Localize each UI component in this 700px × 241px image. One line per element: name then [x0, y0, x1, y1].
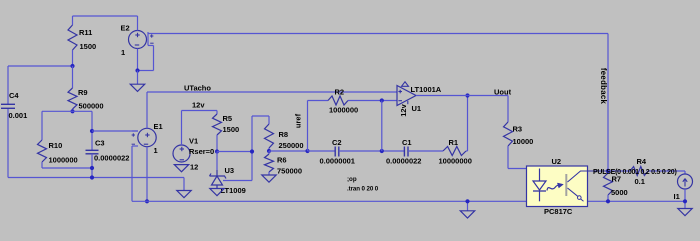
label E1 control plus sign	[132, 133, 135, 136]
node rail ground junction	[465, 199, 469, 203]
wire R11 node left	[8, 65, 73, 67]
ground E2	[130, 84, 144, 91]
opto light arrow	[547, 183, 563, 191]
wire bottom rail	[132, 200, 685, 202]
wire left vertical to C4	[7, 66, 9, 104]
svg-text:E1: E1	[154, 122, 163, 131]
svg-text:1500: 1500	[223, 125, 240, 134]
label R6 value 750000	[277, 167, 302, 176]
svg-text:PC817C: PC817C	[544, 207, 573, 216]
wire rail ground stub	[467, 201, 469, 211]
wire E2 ground stub	[137, 71, 139, 85]
node uref divider junction	[267, 149, 271, 153]
label C3 value 0.0000022	[94, 154, 129, 163]
wire ground stub left rail	[183, 178, 185, 191]
wire C3 column lower	[91, 154, 93, 178]
wire R1 to output	[467, 96, 469, 152]
wire C4 bottom to left rail	[7, 109, 9, 178]
opto LED diode	[533, 169, 546, 192]
current source I1	[678, 171, 693, 209]
resistor R10	[38, 140, 47, 168]
node C2/C1 junction	[380, 149, 384, 153]
svg-text:500000: 500000	[79, 102, 104, 111]
svg-text:1500: 1500	[80, 42, 97, 51]
wire C1 to R1	[408, 150, 443, 152]
svg-text:R3: R3	[513, 125, 523, 134]
wire uref to C2	[308, 150, 336, 152]
label V1 Rser=0	[189, 147, 214, 156]
label R4	[637, 157, 647, 166]
label net UTacho	[184, 84, 211, 93]
svg-text:C2: C2	[332, 138, 342, 147]
wire 2.5V node	[217, 151, 252, 153]
label R8	[279, 130, 289, 139]
node I1 rail junction	[683, 199, 687, 203]
svg-text:uref: uref	[294, 113, 303, 128]
svg-text:V1: V1	[189, 137, 198, 146]
svg-text:UTacho: UTacho	[184, 84, 211, 93]
label C2	[332, 138, 342, 147]
wire U3 adj pin	[223, 180, 252, 182]
label net Uout	[494, 88, 512, 97]
wire C2 to C1	[339, 150, 404, 152]
svg-text:1000000: 1000000	[49, 156, 78, 165]
label R2 value 1000000	[329, 106, 358, 115]
voltage source V1	[173, 111, 190, 163]
label U1 LT1001A	[411, 85, 442, 94]
label I1 PULSE	[593, 169, 677, 176]
wire R9 node horizontal	[42, 110, 92, 112]
vcvs E2	[129, 16, 154, 71]
wire top rail R11 to E2	[73, 15, 138, 17]
node R10/C3 junction	[90, 166, 94, 170]
label R2	[335, 88, 345, 97]
label E1 value 1	[154, 146, 158, 155]
label C1 value 0.0000022	[386, 157, 421, 166]
svg-text:1000000: 1000000	[329, 106, 358, 115]
wire opamp output	[416, 95, 508, 97]
resistor R2	[308, 96, 398, 105]
label V1	[189, 137, 198, 146]
vcvs E1	[132, 92, 156, 201]
capacitor C4	[1, 104, 15, 108]
svg-text:0.1: 0.1	[635, 177, 645, 186]
svg-text:R10: R10	[49, 141, 63, 150]
svg-text:.tran 0 20 0: .tran 0 20 0	[347, 186, 379, 193]
svg-text:250000: 250000	[279, 141, 304, 150]
svg-text:R1: R1	[449, 138, 459, 147]
label E2 value 1	[121, 48, 125, 57]
svg-text:R5: R5	[223, 114, 233, 123]
svg-text:0.0000022: 0.0000022	[386, 157, 421, 166]
wire 12v rail	[182, 110, 218, 112]
ground bottom rail	[460, 211, 474, 218]
directive ;op	[347, 176, 357, 183]
label C4	[9, 91, 19, 100]
label R10	[49, 141, 63, 150]
svg-text:E2: E2	[121, 24, 130, 33]
resistor R3	[504, 122, 513, 169]
svg-text:12: 12	[190, 163, 198, 172]
wire R3 to opto	[508, 168, 540, 170]
resistor R11	[68, 16, 77, 66]
label E2 control plus sign	[150, 34, 153, 37]
wire opto LED cathode	[539, 191, 541, 201]
label R9	[78, 88, 88, 97]
label R10 value 1000000	[49, 156, 78, 165]
svg-text:Uout: Uout	[494, 88, 512, 97]
label R8 value 250000	[279, 141, 304, 150]
svg-text:U2: U2	[552, 157, 562, 166]
label I1	[674, 192, 680, 201]
node R9 bottom junction	[70, 109, 74, 113]
node E1 bottom rail junction	[145, 199, 149, 203]
label R1	[449, 138, 459, 147]
node feedback/R4/R7 junction	[606, 169, 610, 173]
optocoupler U2 PC817C box	[527, 166, 588, 207]
svg-text:R9: R9	[78, 88, 88, 97]
label E2	[121, 24, 130, 33]
wire C3 column upper	[91, 111, 93, 150]
zener U3 LT1009	[210, 170, 227, 189]
svg-text:C4: C4	[9, 91, 19, 100]
svg-text:10000: 10000	[513, 137, 534, 146]
ground left rail	[177, 191, 191, 198]
wire 2.5V vertical	[251, 116, 253, 181]
svg-text:1: 1	[154, 146, 158, 155]
label V1 value 12	[190, 163, 198, 172]
label R3	[513, 125, 523, 134]
wire left ground rail	[8, 177, 184, 179]
svg-text:R4: R4	[637, 157, 647, 166]
node output/R1 junction	[465, 93, 469, 97]
wire 2.5V to R8 top	[252, 115, 269, 117]
label R3 value 10000	[513, 137, 534, 146]
svg-text:12v: 12v	[192, 101, 205, 110]
label net 12v	[192, 101, 205, 110]
label net feedback	[599, 68, 608, 105]
label R6	[277, 156, 287, 165]
op-amp U1 LT1001A	[397, 82, 416, 106]
resistor R7	[604, 173, 613, 201]
svg-text:R6: R6	[277, 156, 287, 165]
wire E2 control plus	[148, 33, 608, 35]
resistor R8	[265, 116, 274, 151]
capacitor C1	[404, 147, 408, 157]
wire R10 bottom to C3 column	[42, 167, 92, 169]
label C4 value 0.001	[9, 111, 28, 120]
resistor R9	[68, 66, 77, 111]
node C3/ground-rail junction	[90, 175, 94, 179]
label R1 value 10000000	[439, 157, 472, 166]
svg-text:C3: C3	[95, 139, 105, 148]
label R11 value 1500	[80, 42, 97, 51]
label C2 value 0.0000001	[320, 157, 355, 166]
svg-text:12v: 12v	[399, 103, 408, 116]
ground I1	[678, 209, 692, 216]
label E1	[154, 122, 163, 131]
label net uref	[294, 113, 303, 128]
label U2	[552, 157, 562, 166]
label C1	[402, 138, 412, 147]
directive .tran	[347, 186, 379, 193]
svg-text:R8: R8	[279, 130, 289, 139]
wire feedback vertical C2	[381, 101, 383, 152]
opto phototransistor emitter	[568, 188, 584, 201]
svg-text:C1: C1	[402, 138, 412, 147]
label R9 value 500000	[79, 102, 104, 111]
wire uref horizontal	[269, 150, 308, 152]
label R7 value 5000	[611, 188, 628, 197]
svg-text:R11: R11	[79, 28, 92, 37]
ground V1	[174, 165, 188, 172]
wire feedback vertical	[607, 34, 609, 173]
svg-text:U1: U1	[412, 104, 422, 113]
opto phototransistor base	[565, 174, 567, 196]
label C3	[95, 139, 105, 148]
node uref junction	[305, 149, 309, 153]
svg-text:LT1001A: LT1001A	[411, 85, 442, 94]
wire down to R10	[41, 111, 43, 140]
resistor R5	[213, 111, 222, 152]
svg-text:1: 1	[121, 48, 125, 57]
svg-text:LT1009: LT1009	[221, 186, 246, 195]
node R7 bottom rail junction	[606, 199, 610, 203]
wire Uout down to R3	[507, 96, 509, 123]
label R5	[223, 114, 233, 123]
svg-text:PULSE(0 0.001 0.2 0.5 0 20): PULSE(0 0.001 0.2 0.5 0 20)	[593, 169, 677, 176]
label U1	[412, 104, 422, 113]
svg-text:5000: 5000	[611, 188, 628, 197]
capacitor C3	[86, 150, 99, 154]
svg-text:10000000: 10000000	[439, 157, 472, 166]
opto phototransistor collector	[568, 171, 609, 182]
label E2 control minus sign	[150, 42, 153, 44]
label U2 PC817C	[544, 207, 573, 216]
node E2 bottom junction	[135, 68, 139, 72]
label U3	[225, 166, 235, 175]
node 2.5V junction	[250, 149, 254, 153]
svg-text:U3: U3	[225, 166, 235, 175]
node C3 top junction	[90, 129, 94, 133]
wire R5 to U3	[216, 152, 218, 171]
svg-text:0.001: 0.001	[9, 111, 28, 120]
label E1 control minus sign	[132, 143, 135, 145]
ground R6	[262, 175, 276, 182]
node R11/R9 junction	[70, 64, 74, 68]
svg-text:;op: ;op	[347, 176, 357, 183]
node R5 bottom junction	[215, 149, 219, 153]
svg-text:0.0000022: 0.0000022	[94, 154, 129, 163]
ground U3	[210, 189, 224, 196]
svg-text:0.0000001: 0.0000001	[320, 157, 355, 166]
resistor R6	[265, 151, 274, 175]
label U3 LT1009	[221, 186, 246, 195]
resistor R1	[443, 147, 468, 156]
label R11	[79, 28, 92, 37]
node opamp minus feedback junction	[380, 98, 384, 102]
svg-text:feedback: feedback	[599, 68, 608, 105]
label U1 supply 12v	[399, 103, 408, 116]
svg-text:I1: I1	[674, 192, 680, 201]
wire net UTacho	[147, 91, 397, 93]
wire uref vertical	[307, 101, 309, 152]
label R5 value 1500	[223, 125, 240, 134]
svg-text:Rser=0: Rser=0	[189, 147, 214, 156]
label R7	[612, 175, 622, 184]
wire E1 plus-control to C3	[92, 130, 138, 132]
resistor R4	[608, 167, 685, 176]
capacitor C2	[335, 147, 339, 157]
svg-text:R2: R2	[335, 88, 345, 97]
svg-text:750000: 750000	[277, 167, 302, 176]
label R4 value 0.1	[635, 177, 645, 186]
